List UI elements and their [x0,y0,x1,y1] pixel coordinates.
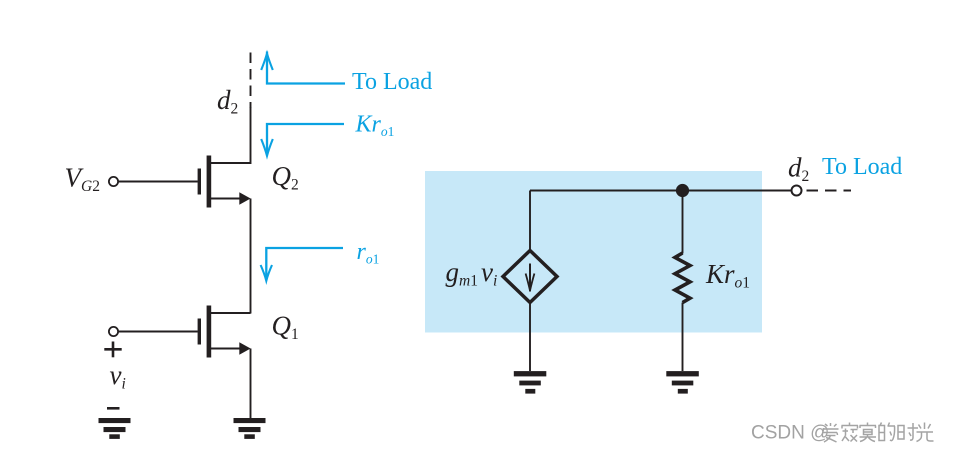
svg-text:d2: d2 [217,85,238,118]
transistor Q1 [198,306,251,358]
watermark: CJK glyph de [879,423,895,441]
wire: dashed stub to load (right) [807,190,852,192]
label: To Load (right, cyan) [822,154,902,180]
node VG2 label [65,163,100,196]
label Q1 [272,311,299,344]
terminal VG2 [109,177,118,186]
resistor Kro1 [675,253,690,303]
wire: top rail [530,190,792,192]
label: ro1 (cyan) [357,239,380,267]
svg-text:Q1: Q1 [272,311,299,344]
wire: Q2 source to Q1 drain [250,199,252,314]
ground (Q1 source) [234,418,266,439]
wire: current source top lead [529,191,531,252]
wire: current source bottom lead [529,303,531,372]
wire: input to Q1 gate [118,331,198,333]
ground (current source) [514,371,547,394]
ground (vi) [99,418,131,439]
annotation arrow: ro1 current down (cyan) [261,248,343,281]
wire: Q1 source down [250,349,252,419]
terminal vi input [109,327,118,336]
node d2 (left) [217,85,238,118]
svg-text:To Load: To Load [822,154,902,180]
wire: resistor top lead [682,191,684,254]
svg-text:Q2: Q2 [272,161,299,194]
svg-text:Kro1: Kro1 [355,112,395,140]
svg-text:ro1: ro1 [357,239,380,267]
watermark: CJK glyph guang [917,423,934,442]
label: Kro1 (right) [705,259,750,292]
wire: dashed drain stub to load [250,53,252,109]
junction node dot [676,184,689,197]
watermark: CJK glyph ai [823,423,839,442]
label Q2 [272,161,299,194]
watermark: CJK glyph shi [898,423,918,440]
label: To Load (left, cyan) [352,69,432,95]
label: Kro1 (cyan) [355,112,395,140]
terminal d2 (right) [792,186,802,196]
watermark: CJK glyph mo [860,423,877,442]
svg-text:VG2: VG2 [65,163,100,196]
svg-text:vi: vi [110,360,126,393]
label: gm1 vi [446,257,498,290]
svg-text:CSDN @: CSDN @ [751,423,829,444]
label: vi [110,360,126,393]
annotation arrow: current up to load (cyan) [261,52,345,84]
watermark: CSDN @ [751,423,829,444]
wire: Q2 drain vertical [250,107,252,164]
label: + polarity [104,342,121,358]
transistor Q2 [198,156,251,208]
dependent current source gm1*vi [503,251,557,303]
svg-text:To Load: To Load [352,69,432,95]
label: - polarity [107,407,120,410]
shaded equivalent-circuit box [425,171,762,333]
annotation arrow: Kro1 current down (cyan) [261,124,344,156]
node d2 label (right) [788,153,809,186]
svg-text:d2: d2 [788,153,809,186]
ground (resistor) [666,371,699,394]
watermark: CJK glyph ji [842,423,859,442]
wire: resistor bottom lead [682,303,684,372]
wire: VG2 to Q2 gate [118,181,198,183]
